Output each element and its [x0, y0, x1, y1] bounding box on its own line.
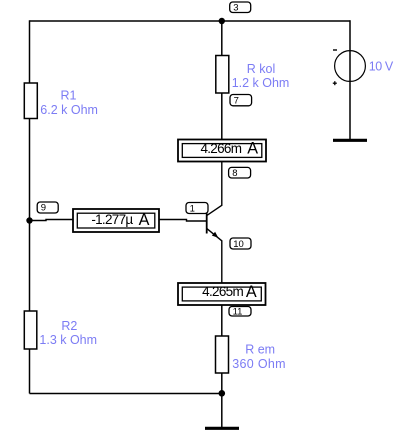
wire junction to ground — [221, 393, 223, 427]
label R kol — [232, 62, 290, 90]
wire junction9 to ammeter M3 — [30, 220, 74, 221]
node 3 — [230, 2, 251, 13]
transistor Q1 NPN — [207, 205, 222, 241]
node 9 — [37, 202, 58, 214]
wire right vertical — [349, 20, 351, 139]
node 7 — [230, 95, 252, 107]
resistor R1 — [24, 83, 37, 119]
svg-text:A: A — [139, 211, 150, 229]
wire R kol to ammeter M1 — [221, 93, 223, 140]
label 10 V — [369, 60, 394, 74]
svg-text:10: 10 — [233, 239, 244, 250]
svg-text:R1: R1 — [61, 89, 77, 103]
svg-text:A: A — [247, 139, 258, 157]
label R1 — [40, 89, 98, 117]
svg-text:6.2 k Ohm: 6.2 k Ohm — [40, 103, 98, 117]
label R2 — [39, 319, 97, 347]
svg-text:10 V: 10 V — [369, 60, 394, 74]
wire left vertical middle — [29, 119, 31, 312]
wire ammeter M3 to base — [159, 220, 207, 222]
svg-text:1: 1 — [190, 203, 195, 214]
wire collector vertical — [221, 162, 223, 206]
svg-text:3: 3 — [233, 2, 238, 13]
ground bottom — [205, 427, 239, 430]
ammeter M1 (4.266mA collector current) — [178, 139, 266, 161]
resistor R2 — [24, 311, 37, 349]
svg-text:4.266m: 4.266m — [200, 141, 241, 156]
wire emitter vertical — [221, 240, 223, 283]
junction top middle — [219, 18, 225, 24]
junction bottom — [219, 390, 226, 397]
node 8 — [229, 167, 251, 179]
svg-text:11: 11 — [233, 307, 243, 318]
node 1 — [186, 203, 208, 215]
svg-text:4.265m: 4.265m — [202, 284, 243, 299]
svg-text:A: A — [246, 283, 257, 301]
svg-text:1.2 k Ohm: 1.2 k Ohm — [232, 76, 290, 90]
svg-text:360 Ohm: 360 Ohm — [232, 357, 286, 371]
svg-text:R2: R2 — [61, 319, 77, 333]
resistor R em — [216, 336, 229, 373]
wire left vertical lower — [29, 349, 31, 394]
svg-text:8: 8 — [232, 168, 237, 179]
wire ammeter M2 to R em — [221, 305, 223, 337]
ammeter M2 (4.265mA emitter current) — [178, 283, 266, 305]
wire left vertical upper — [29, 20, 31, 83]
svg-text:-1.277µ: -1.277µ — [91, 212, 133, 227]
svg-text:1.3 k Ohm: 1.3 k Ohm — [39, 333, 97, 347]
svg-text:R kol: R kol — [247, 62, 275, 76]
ammeter M3 (-1.277µA base current) — [73, 209, 159, 232]
wire bottom horizontal — [30, 393, 222, 395]
wire R em to ground junction — [221, 373, 223, 394]
svg-text:7: 7 — [234, 95, 239, 106]
voltage source V1 10V — [333, 50, 366, 85]
junction node 9 — [26, 217, 32, 223]
wire top junction to R kol — [221, 21, 223, 56]
node 10 — [230, 238, 251, 250]
label R em — [232, 343, 286, 371]
svg-text:R em: R em — [245, 343, 275, 357]
wire top horizontal bus — [30, 20, 351, 22]
resistor R kol — [216, 56, 229, 94]
svg-text:9: 9 — [41, 203, 46, 214]
ground right — [333, 139, 367, 142]
node 11 — [229, 307, 251, 318]
